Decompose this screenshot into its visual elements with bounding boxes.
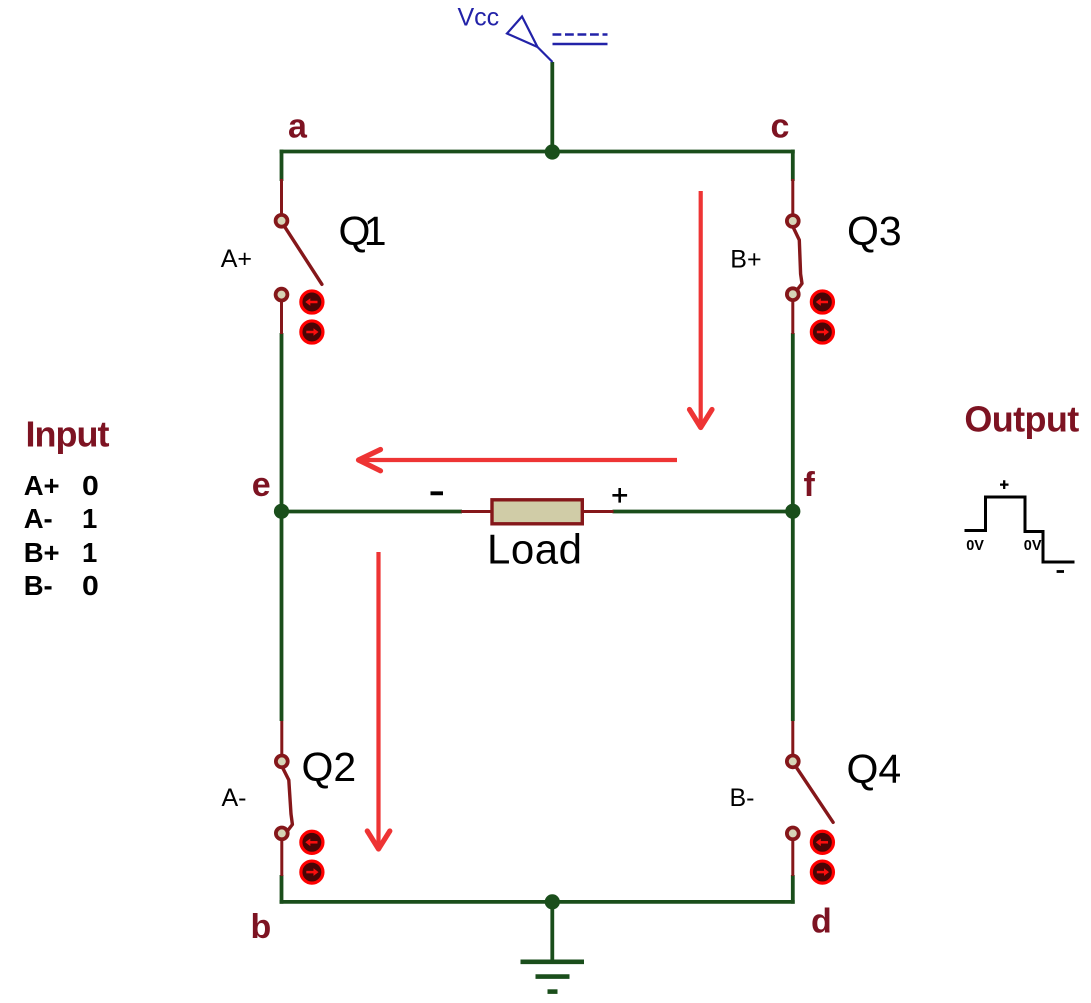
- svg-text:0V: 0V: [966, 538, 984, 554]
- svg-text:Q4: Q4: [847, 746, 902, 792]
- svg-text:Input: Input: [26, 414, 110, 455]
- svg-text:A+: A+: [221, 245, 252, 273]
- svg-text:B-: B-: [730, 784, 755, 812]
- svg-text:A-: A-: [222, 784, 247, 812]
- svg-text:A-: A-: [24, 503, 53, 534]
- svg-text:Q1: Q1: [339, 208, 387, 254]
- svg-text:d: d: [811, 903, 832, 941]
- svg-text:0: 0: [82, 470, 99, 501]
- svg-text:0V: 0V: [1024, 538, 1042, 554]
- svg-text:1: 1: [82, 537, 97, 568]
- svg-text:B+: B+: [24, 537, 60, 568]
- svg-text:1: 1: [82, 503, 97, 534]
- svg-text:f: f: [804, 466, 816, 504]
- svg-text:Q2: Q2: [302, 744, 357, 790]
- svg-text:B+: B+: [730, 246, 761, 274]
- svg-text:Q3: Q3: [847, 208, 902, 254]
- svg-text:b: b: [251, 908, 272, 946]
- svg-text:a: a: [288, 108, 308, 146]
- svg-text:Vcc: Vcc: [458, 4, 500, 32]
- svg-text:c: c: [771, 108, 790, 146]
- svg-text:B-: B-: [24, 570, 53, 601]
- svg-text:0: 0: [82, 570, 99, 601]
- svg-text:Load: Load: [487, 526, 582, 573]
- svg-text:Output: Output: [964, 399, 1079, 440]
- svg-text:e: e: [252, 466, 271, 504]
- svg-text:A+: A+: [24, 470, 60, 501]
